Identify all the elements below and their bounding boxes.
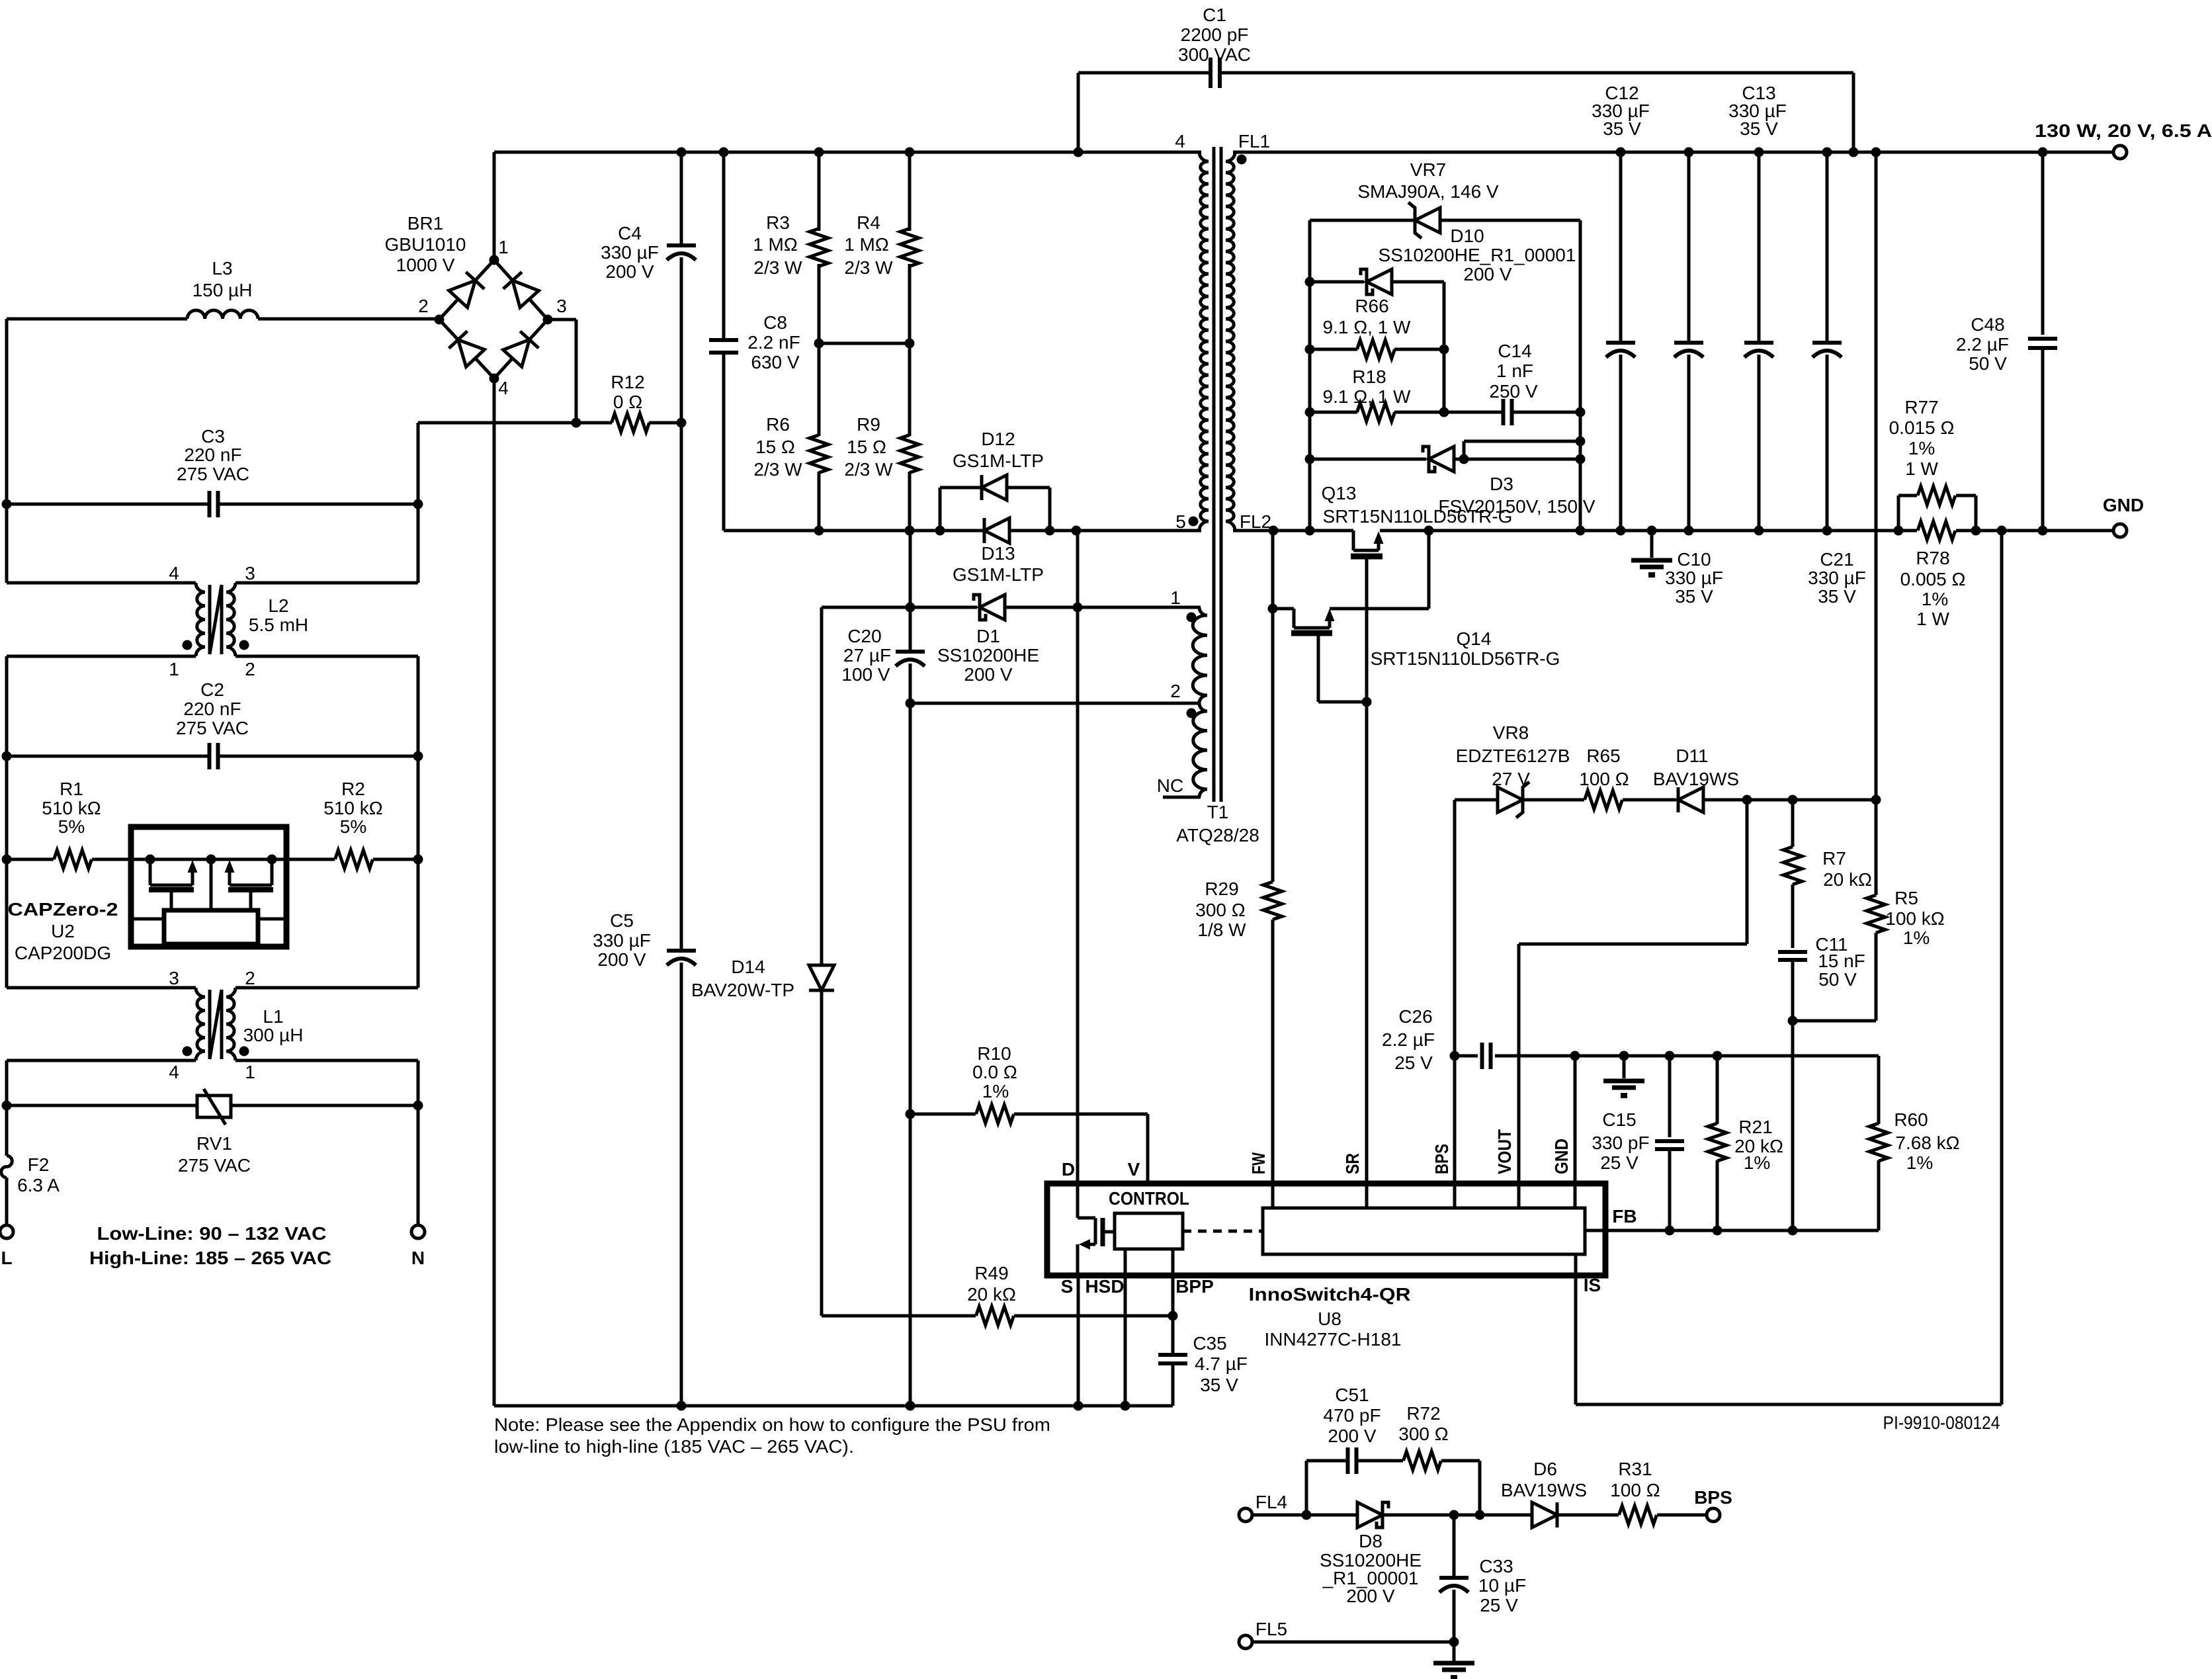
resistor R65: [1579, 746, 1676, 809]
bridge rectifier BR1: [385, 213, 567, 398]
svg-text:NC: NC: [1157, 775, 1183, 796]
svg-text:D6: D6: [1533, 1459, 1557, 1479]
svg-text:330 µF: 330 µF: [601, 242, 659, 263]
svg-text:C35: C35: [1193, 1333, 1226, 1354]
common-mode choke L1: [7, 968, 418, 1082]
svg-text:3: 3: [245, 563, 255, 583]
resistor R12: [611, 372, 649, 432]
svg-text:275 VAC: 275 VAC: [177, 464, 249, 484]
drawing number PI-9910-080124: [1883, 1412, 2000, 1433]
svg-text:FL4: FL4: [1255, 1492, 1287, 1512]
svg-text:D12: D12: [981, 429, 1015, 449]
svg-text:C21: C21: [1820, 549, 1853, 570]
svg-text:200 V: 200 V: [597, 949, 646, 970]
svg-text:100 V: 100 V: [841, 664, 890, 685]
svg-text:2: 2: [245, 968, 255, 988]
capacitor C10: [1665, 152, 1723, 607]
terminal FL4: [1239, 1492, 1287, 1522]
svg-text:High-Line: 185 – 265 VAC: High-Line: 185 – 265 VAC: [89, 1248, 331, 1268]
diode D8: [1320, 1502, 1422, 1606]
svg-text:27 V: 27 V: [1492, 769, 1530, 789]
svg-text:Low-Line: 90 – 132 VAC: Low-Line: 90 – 132 VAC: [97, 1223, 327, 1244]
zener diode VR7: [1310, 159, 1580, 238]
svg-text:RV1: RV1: [196, 1133, 232, 1154]
wire: snubber left leg: [1305, 220, 1315, 531]
svg-text:200 V: 200 V: [605, 261, 654, 282]
wire: doubler midpoint row: [418, 418, 687, 428]
svg-text:D: D: [1062, 1159, 1075, 1180]
U8 pin label HSD: [1085, 1276, 1124, 1297]
svg-text:2/3 W: 2/3 W: [753, 257, 802, 278]
svg-text:R1: R1: [60, 779, 83, 799]
resistor R4: [844, 152, 919, 349]
svg-text:R31: R31: [1618, 1459, 1652, 1479]
terminal: 130 W output: [2035, 120, 2212, 159]
svg-text:2.2 nF: 2.2 nF: [747, 332, 800, 353]
svg-text:R18: R18: [1352, 366, 1386, 387]
wire: primary drain row (transformer pin 5): [724, 355, 1201, 536]
svg-text:VR8: VR8: [1493, 722, 1529, 743]
resistor R10: [910, 1043, 1148, 1184]
capacitor C14: [1444, 341, 1580, 425]
svg-text:20 kΩ: 20 kΩ: [1823, 869, 1872, 890]
svg-text:300 Ω: 300 Ω: [1398, 1424, 1448, 1444]
ground symbol (BPS circuit): [1433, 1642, 1474, 1679]
diode D1: [822, 595, 1201, 685]
svg-text:R10: R10: [977, 1043, 1011, 1064]
svg-text:Q13: Q13: [1322, 483, 1357, 503]
svg-text:R78: R78: [1916, 548, 1949, 568]
svg-text:FL1: FL1: [1238, 131, 1270, 151]
IC U2 CAPZero-2: [8, 827, 287, 963]
svg-text:300 µH: 300 µH: [243, 1025, 304, 1045]
svg-text:R21: R21: [1738, 1117, 1772, 1137]
wire: secondary output rail (FL1 to output): [1233, 148, 2113, 157]
svg-text:U8: U8: [1318, 1309, 1341, 1329]
svg-text:GND: GND: [1551, 1139, 1572, 1174]
svg-text:20 kΩ: 20 kΩ: [967, 1284, 1016, 1305]
svg-text:330 µF: 330 µF: [1808, 568, 1866, 588]
U8 pin label FW: [1248, 1152, 1269, 1174]
svg-text:SMAJ90A, 146 V: SMAJ90A, 146 V: [1357, 181, 1499, 202]
svg-text:BPP: BPP: [1175, 1276, 1214, 1297]
svg-text:HSD: HSD: [1085, 1276, 1124, 1297]
svg-text:200 V: 200 V: [1463, 264, 1511, 284]
wire: L-side input column (left vertical): [2, 319, 12, 1225]
svg-text:INN4277C-H181: INN4277C-H181: [1265, 1329, 1402, 1350]
transformer T1 core: [1176, 147, 1259, 845]
wire: U8 drain column: [1076, 531, 1080, 1184]
svg-text:C48: C48: [1971, 314, 2004, 335]
svg-text:BAV20W-TP: BAV20W-TP: [691, 980, 794, 1000]
svg-text:7.68 kΩ: 7.68 kΩ: [1895, 1133, 1959, 1153]
diode D6: [1501, 1459, 1619, 1528]
svg-text:R29: R29: [1205, 879, 1238, 899]
wire: BR1 node4 return column: [493, 378, 496, 1406]
resistor R18: [1310, 366, 1444, 421]
capacitor C51 / resistor R72 bypass: [1306, 1385, 1480, 1515]
capacitor C35: [1158, 1249, 1248, 1406]
diode D3: [1310, 441, 1595, 517]
svg-text:25 V: 25 V: [1600, 1152, 1638, 1173]
svg-text:C4: C4: [618, 223, 642, 243]
svg-text:ATQ28/28: ATQ28/28: [1176, 825, 1259, 845]
svg-text:4: 4: [498, 378, 509, 398]
svg-text:C8: C8: [763, 312, 787, 333]
svg-text:27 µF: 27 µF: [843, 645, 891, 666]
svg-text:R4: R4: [857, 212, 880, 233]
U8 pin label S: [1061, 1276, 1074, 1297]
capacitor C1: [1078, 5, 1859, 157]
capacitor C5: [593, 423, 696, 1406]
svg-text:4: 4: [169, 1062, 179, 1082]
U8 pin label VOUT: [1494, 1129, 1515, 1174]
svg-text:1/8 W: 1/8 W: [1197, 920, 1246, 940]
svg-text:IS: IS: [1584, 1275, 1601, 1295]
svg-text:2/3 W: 2/3 W: [753, 459, 802, 480]
svg-text:510 kΩ: 510 kΩ: [42, 798, 101, 818]
svg-text:630 V: 630 V: [751, 352, 799, 372]
wire: SR gate column to U8 SR pin: [1362, 559, 1372, 1208]
wire: VOUT sense Z-link: [1519, 800, 1747, 1208]
U8 pin label D: [1062, 1159, 1075, 1180]
terminal BPS: [1694, 1487, 1732, 1522]
svg-text:R2: R2: [341, 779, 365, 799]
svg-text:R7: R7: [1822, 848, 1846, 869]
U8 pin label FB: [1612, 1206, 1637, 1227]
diode D14: [691, 607, 834, 1316]
svg-text:FB: FB: [1612, 1206, 1637, 1227]
svg-text:SR: SR: [1342, 1153, 1363, 1174]
svg-text:R72: R72: [1406, 1403, 1440, 1424]
svg-text:CAPZero-2: CAPZero-2: [8, 899, 118, 920]
terminal GND: [2103, 495, 2144, 537]
svg-text:100 kΩ: 100 kΩ: [1885, 908, 1944, 929]
svg-text:275 VAC: 275 VAC: [176, 718, 249, 738]
resistor R29: [1195, 609, 1282, 1208]
svg-text:2200 pF: 2200 pF: [1181, 24, 1249, 45]
diode D11: [1653, 746, 1881, 812]
capacitor C3: [7, 426, 418, 517]
svg-text:2/3 W: 2/3 W: [844, 257, 893, 278]
capacitor C4: [601, 152, 696, 423]
capacitor C2: [7, 679, 418, 769]
svg-text:PI-9910-080124: PI-9910-080124: [1883, 1412, 2000, 1433]
wire: S pin to return rail: [1077, 1275, 1080, 1406]
svg-text:2.2 µF: 2.2 µF: [1382, 1029, 1435, 1050]
svg-text:GBU1010: GBU1010: [385, 234, 466, 255]
svg-text:9.1 Ω, 1 W: 9.1 Ω, 1 W: [1323, 386, 1412, 407]
svg-text:C14: C14: [1498, 341, 1531, 361]
resistor R3: [753, 152, 828, 349]
svg-text:4: 4: [169, 563, 179, 583]
svg-text:D10: D10: [1450, 226, 1484, 246]
varistor RV1: [7, 1089, 418, 1176]
svg-text:10 µF: 10 µF: [1478, 1575, 1526, 1596]
svg-text:CONTROL: CONTROL: [1109, 1188, 1189, 1209]
svg-text:R77: R77: [1904, 397, 1938, 417]
resistor R78 (in GND rail): [1900, 521, 1966, 629]
svg-text:35 V: 35 V: [1740, 118, 1778, 139]
svg-text:F2: F2: [28, 1154, 50, 1175]
svg-text:2: 2: [418, 296, 429, 316]
resistor R77 (bypass): [1889, 397, 1976, 531]
note text: [494, 1414, 1050, 1457]
U8 pin label SR: [1342, 1153, 1363, 1174]
wire: primary return rail (bottom): [494, 1401, 1173, 1411]
U8 pin label BPS: [1431, 1144, 1452, 1174]
resistor R5: [1793, 152, 1945, 1021]
svg-text:470 pF: 470 pF: [1323, 1405, 1381, 1426]
wire: R3-R4 midpoint link: [819, 342, 910, 345]
transformer T1 auxiliary winding (pins 1-2-NC): [1157, 587, 1207, 797]
transistor Q13 (SR FET): [1322, 483, 1513, 556]
svg-text:L: L: [1, 1248, 12, 1268]
svg-text:200 V: 200 V: [1346, 1586, 1394, 1606]
svg-text:25 V: 25 V: [1480, 1595, 1518, 1615]
wire: N-side column lower to N terminal: [413, 859, 423, 1225]
svg-text:1 W: 1 W: [1905, 458, 1938, 479]
svg-text:0.0 Ω: 0.0 Ω: [972, 1062, 1017, 1082]
svg-text:R9: R9: [857, 414, 880, 435]
svg-text:SRT15N110LD56TR-G: SRT15N110LD56TR-G: [1323, 506, 1513, 527]
svg-text:R12: R12: [611, 372, 644, 392]
svg-text:R60: R60: [1894, 1109, 1928, 1130]
capacitor C33: [1439, 1515, 1526, 1647]
svg-text:N: N: [411, 1248, 425, 1268]
svg-text:220 nF: 220 nF: [184, 445, 241, 465]
svg-text:1: 1: [169, 659, 179, 679]
resistor R7: [1783, 800, 1872, 948]
svg-text:4: 4: [1175, 131, 1185, 151]
capacitor C11: [1778, 934, 1865, 1236]
svg-text:FL2: FL2: [1240, 511, 1271, 532]
wire: N-side column upper: [413, 423, 423, 583]
wire: FB row: [1585, 1226, 1879, 1236]
svg-text:GS1M-LTP: GS1M-LTP: [953, 451, 1044, 471]
svg-text:1: 1: [1170, 587, 1181, 608]
svg-text:D13: D13: [981, 543, 1015, 564]
svg-text:15 Ω: 15 Ω: [755, 437, 795, 457]
wire: snubber right leg: [1576, 220, 1586, 531]
svg-text:510 kΩ: 510 kΩ: [323, 798, 382, 818]
resistor R21: [1708, 1056, 1783, 1230]
svg-text:35 V: 35 V: [1200, 1375, 1238, 1395]
svg-text:5%: 5%: [58, 816, 85, 837]
fuse F2: [1, 1154, 60, 1195]
svg-text:200 V: 200 V: [964, 664, 1012, 685]
inductor L3: [7, 258, 439, 319]
svg-text:35 V: 35 V: [1818, 586, 1856, 607]
transistor Q14 (SR FET): [1268, 531, 1560, 702]
svg-text:C33: C33: [1479, 1556, 1513, 1576]
svg-text:C15: C15: [1602, 1109, 1636, 1130]
svg-text:1: 1: [245, 1062, 255, 1082]
svg-text:330 µF: 330 µF: [593, 930, 651, 951]
svg-text:3: 3: [556, 296, 567, 316]
svg-text:D14: D14: [731, 957, 765, 977]
svg-text:0 Ω: 0 Ω: [613, 392, 642, 412]
svg-text:C26: C26: [1398, 1006, 1432, 1027]
capacitor C21: [1808, 152, 1866, 607]
svg-text:GND: GND: [2103, 495, 2144, 515]
svg-text:R49: R49: [974, 1263, 1008, 1283]
svg-text:35 V: 35 V: [1603, 118, 1641, 139]
svg-text:R5: R5: [1894, 888, 1918, 908]
svg-text:V: V: [1128, 1159, 1140, 1180]
wire: BPS pin column: [1453, 1056, 1457, 1208]
resistor R66: [1310, 296, 1444, 359]
wire: IS sense return: [1576, 531, 2002, 1404]
svg-text:5: 5: [1175, 511, 1186, 532]
svg-text:D3: D3: [1490, 474, 1513, 494]
wire: SR FET row (FL2): [1233, 526, 2113, 536]
resistor R6: [753, 343, 828, 536]
svg-text:5%: 5%: [340, 816, 366, 837]
svg-text:6.3 A: 6.3 A: [17, 1175, 60, 1195]
resistor R49: [822, 1263, 1178, 1325]
svg-text:C51: C51: [1335, 1385, 1369, 1405]
wire: BR1 node1 to DC+ rail: [493, 152, 496, 260]
ground symbol (secondary GND rail): [1631, 531, 1672, 578]
svg-text:1 nF: 1 nF: [1496, 361, 1533, 381]
svg-text:2/3 W: 2/3 W: [844, 459, 893, 480]
svg-text:FL5: FL5: [1255, 1619, 1287, 1639]
capacitor C48: [1956, 152, 2057, 531]
svg-text:4.7 µF: 4.7 µF: [1195, 1354, 1248, 1374]
terminal N: [411, 1225, 425, 1268]
diode D10: [1310, 226, 1576, 417]
capacitor C20: [841, 531, 925, 1411]
wire: U8 GND pin column: [1574, 1056, 1577, 1208]
svg-text:15 Ω: 15 Ω: [847, 437, 886, 457]
transformer T1 secondary winding (FL1-FL2): [1226, 131, 1271, 532]
zener diode VR8: [1455, 722, 1584, 1056]
svg-text:100 Ω: 100 Ω: [1610, 1480, 1660, 1500]
svg-text:2.2 µF: 2.2 µF: [1956, 334, 2009, 355]
svg-text:C5: C5: [610, 910, 634, 931]
resistor R2: [286, 779, 418, 869]
wire: FL5 row: [1252, 1641, 1454, 1644]
svg-text:InnoSwitch4-QR: InnoSwitch4-QR: [1249, 1284, 1411, 1305]
svg-text:R6: R6: [766, 414, 790, 435]
svg-text:1%: 1%: [1744, 1152, 1770, 1173]
U8 pin label V: [1128, 1159, 1140, 1180]
resistor R9: [844, 343, 919, 536]
resistor R1: [7, 779, 131, 869]
svg-text:150 µH: 150 µH: [192, 280, 253, 300]
svg-text:1 W: 1 W: [1916, 609, 1949, 629]
svg-text:330 pF: 330 pF: [1592, 1133, 1649, 1153]
svg-text:25 V: 25 V: [1394, 1053, 1433, 1073]
ground symbol (GND net row): [1603, 1056, 1644, 1098]
svg-text:R65: R65: [1586, 746, 1620, 766]
svg-text:50 V: 50 V: [1818, 969, 1857, 990]
svg-text:C1: C1: [1203, 5, 1226, 25]
svg-text:130 W, 20 V, 6.5 A: 130 W, 20 V, 6.5 A: [2035, 120, 2212, 141]
capacitor C13: [1728, 83, 1787, 531]
svg-text:50 V: 50 V: [1969, 353, 2007, 374]
svg-text:C10: C10: [1677, 549, 1711, 570]
svg-text:SS10200HE_R1_00001: SS10200HE_R1_00001: [1379, 245, 1576, 265]
svg-text:D1: D1: [976, 626, 1000, 646]
svg-text:D8: D8: [1359, 1531, 1382, 1551]
svg-text:D11: D11: [1676, 746, 1708, 766]
svg-text:SS10200HE: SS10200HE: [937, 645, 1039, 666]
svg-text:2: 2: [245, 659, 255, 679]
wire: FL4 row: [1252, 1510, 1533, 1520]
svg-text:100 Ω: 100 Ω: [1579, 769, 1629, 789]
svg-text:GS1M-LTP: GS1M-LTP: [953, 564, 1044, 585]
svg-text:C3: C3: [201, 426, 225, 447]
svg-text:200 V: 200 V: [1328, 1426, 1376, 1446]
svg-text:SRT15N110LD56TR-G: SRT15N110LD56TR-G: [1371, 648, 1560, 669]
svg-text:EDZTE6127B: EDZTE6127B: [1456, 746, 1570, 766]
svg-text:275 VAC: 275 VAC: [178, 1155, 251, 1176]
svg-text:1000 V: 1000 V: [396, 255, 455, 275]
resistor R31: [1610, 1459, 1707, 1524]
wire: BR1 node3 to voltage-doubler jumper: [548, 320, 576, 423]
svg-text:3: 3: [169, 968, 179, 988]
svg-text:C20: C20: [847, 626, 881, 646]
svg-text:1 MΩ: 1 MΩ: [844, 234, 889, 255]
U8 pin label GND: [1551, 1139, 1572, 1174]
svg-text:1%: 1%: [1903, 927, 1930, 948]
common-mode choke L2: [7, 563, 418, 679]
svg-text:L1: L1: [263, 1006, 283, 1027]
wire: HSD pin to return rail: [1124, 1249, 1127, 1406]
svg-text:Q14: Q14: [1457, 628, 1492, 649]
svg-text:5.5 mH: 5.5 mH: [249, 615, 308, 635]
svg-text:330 µF: 330 µF: [1665, 568, 1723, 588]
svg-text:BPS: BPS: [1431, 1144, 1452, 1174]
note: line voltage ranges: [89, 1223, 331, 1268]
svg-text:S: S: [1061, 1276, 1074, 1297]
svg-text:0.015 Ω: 0.015 Ω: [1889, 417, 1955, 438]
svg-text:1: 1: [498, 237, 509, 257]
svg-text:FW: FW: [1248, 1152, 1269, 1174]
diode D13: [953, 518, 1044, 585]
svg-text:1%: 1%: [1906, 1152, 1933, 1173]
svg-text:R66: R66: [1355, 296, 1388, 316]
U8 pin label IS: [1584, 1275, 1601, 1295]
svg-text:T1: T1: [1207, 802, 1229, 822]
svg-text:L3: L3: [212, 258, 232, 279]
terminal FL5: [1239, 1619, 1287, 1649]
IC U8 InnoSwitch4-QR body: [1047, 1184, 1605, 1350]
svg-text:1 MΩ: 1 MΩ: [753, 234, 798, 255]
svg-text:VOUT: VOUT: [1494, 1129, 1515, 1174]
svg-text:2: 2: [1170, 681, 1181, 701]
transformer T1 primary winding (pins 4-5): [1175, 131, 1209, 532]
capacitor C26: [1382, 1006, 1879, 1073]
svg-text:L2: L2: [268, 595, 288, 616]
svg-text:U2: U2: [51, 921, 75, 941]
svg-text:Note: Please see the Appendix: Note: Please see the Appendix on how to …: [494, 1414, 1050, 1435]
svg-text:BAV19WS: BAV19WS: [1501, 1480, 1587, 1500]
svg-text:9.1 Ω, 1 W: 9.1 Ω, 1 W: [1323, 317, 1412, 337]
svg-text:R3: R3: [766, 212, 790, 233]
svg-text:BPS: BPS: [1694, 1487, 1732, 1508]
svg-text:VR7: VR7: [1410, 159, 1446, 180]
svg-text:BR1: BR1: [407, 213, 443, 234]
capacitor C8: [709, 152, 800, 531]
svg-text:BAV19WS: BAV19WS: [1653, 769, 1739, 789]
svg-text:low-line to high-line (185 VAC: low-line to high-line (185 VAC – 265 VAC…: [494, 1436, 854, 1457]
svg-text:250 V: 250 V: [1489, 381, 1537, 402]
capacitor C12: [1592, 83, 1650, 531]
wire: transformer aux pin 2 row: [910, 702, 1201, 705]
